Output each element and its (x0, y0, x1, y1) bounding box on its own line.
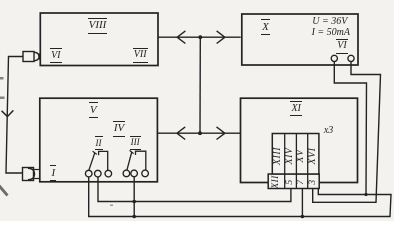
label VIII (68, 18, 128, 34)
wire row right corner to bottom bus (89, 177, 391, 217)
wire cell 5 to switch II (98, 177, 291, 202)
wire VIII connector to V plug (left side) (6, 57, 23, 174)
node on top wire (198, 35, 202, 39)
switch III contact c (142, 170, 149, 177)
label X (236, 19, 296, 35)
block XI (bottom-right unit) (241, 98, 358, 182)
node on bottom middle wire (198, 131, 202, 135)
block X (top-right unit) (242, 14, 358, 65)
label VI in X (312, 39, 372, 54)
scan artifact left edge dash (0, 77, 4, 80)
switch II bracket (99, 151, 108, 170)
arrow down on left wire (2, 110, 14, 116)
label pin 5 rotated (285, 167, 295, 197)
label V (63, 102, 123, 118)
scan artifact left edge dash 2 (0, 97, 5, 100)
label VII in VIII (110, 48, 170, 63)
terminal right of X (348, 55, 354, 61)
switch II contact b (95, 170, 102, 177)
label XV rotated (296, 141, 306, 171)
block V (bottom-left unit) (40, 98, 158, 182)
plug I at V left edge (23, 168, 40, 181)
sub-block columns XIII-XVI (272, 134, 319, 175)
block VIII (top-left unit) (40, 13, 158, 66)
junction dot net P (364, 193, 367, 196)
label II (69, 136, 129, 150)
label pin 7 rotated (296, 167, 306, 197)
arrow left on top wire (177, 31, 185, 44)
switch II contact a (85, 170, 92, 177)
junction dot cell 7 (301, 215, 305, 219)
arrow left on middle wire (177, 127, 185, 140)
switch III blade (127, 150, 134, 170)
wire V to XI (157, 132, 240, 134)
label XVI rotated (308, 141, 318, 171)
label XII rotated (271, 167, 281, 197)
label I=50mA (301, 28, 361, 38)
switch III bracket (136, 151, 146, 170)
label VI in VIII (26, 48, 86, 63)
switch III contact a (123, 170, 130, 177)
vertical bus wire (199, 37, 201, 133)
label x3 (299, 126, 359, 136)
junction dot at bottom bus left (132, 215, 136, 219)
label XI (266, 101, 326, 116)
label III (105, 136, 165, 150)
connector at VIII left edge (23, 52, 40, 62)
scan artifact speck (110, 205, 113, 207)
arrow right on middle wire (217, 127, 225, 140)
label XIV rotated (285, 141, 295, 171)
label pin 3 rotated (308, 167, 318, 197)
column divider 1 (284, 134, 286, 189)
label U=36V (300, 17, 360, 27)
wire VIII to X (158, 36, 241, 38)
arrow right on top wire (217, 31, 225, 44)
wire X right terminal to cell 3 (313, 62, 381, 203)
wire X left terminal down right side (334, 62, 366, 195)
wire switch III contact down (133, 177, 135, 217)
sub-block XII-XVI pin row (erases XI bottom edge) (268, 174, 319, 189)
switch II contact c (105, 170, 112, 177)
scan artifact bottom-left streak (0, 185, 9, 197)
column divider 2 (295, 134, 297, 189)
label I (23, 165, 83, 181)
label IV (89, 121, 149, 137)
switch II blade (89, 151, 97, 170)
label XIII rotated (273, 141, 283, 171)
column divider 3 (307, 134, 309, 189)
wire cell 7 to bottom bus (301, 189, 303, 217)
terminal left of X (331, 55, 337, 61)
switch III contact b (131, 170, 138, 177)
junction dot at level2 (132, 200, 136, 204)
